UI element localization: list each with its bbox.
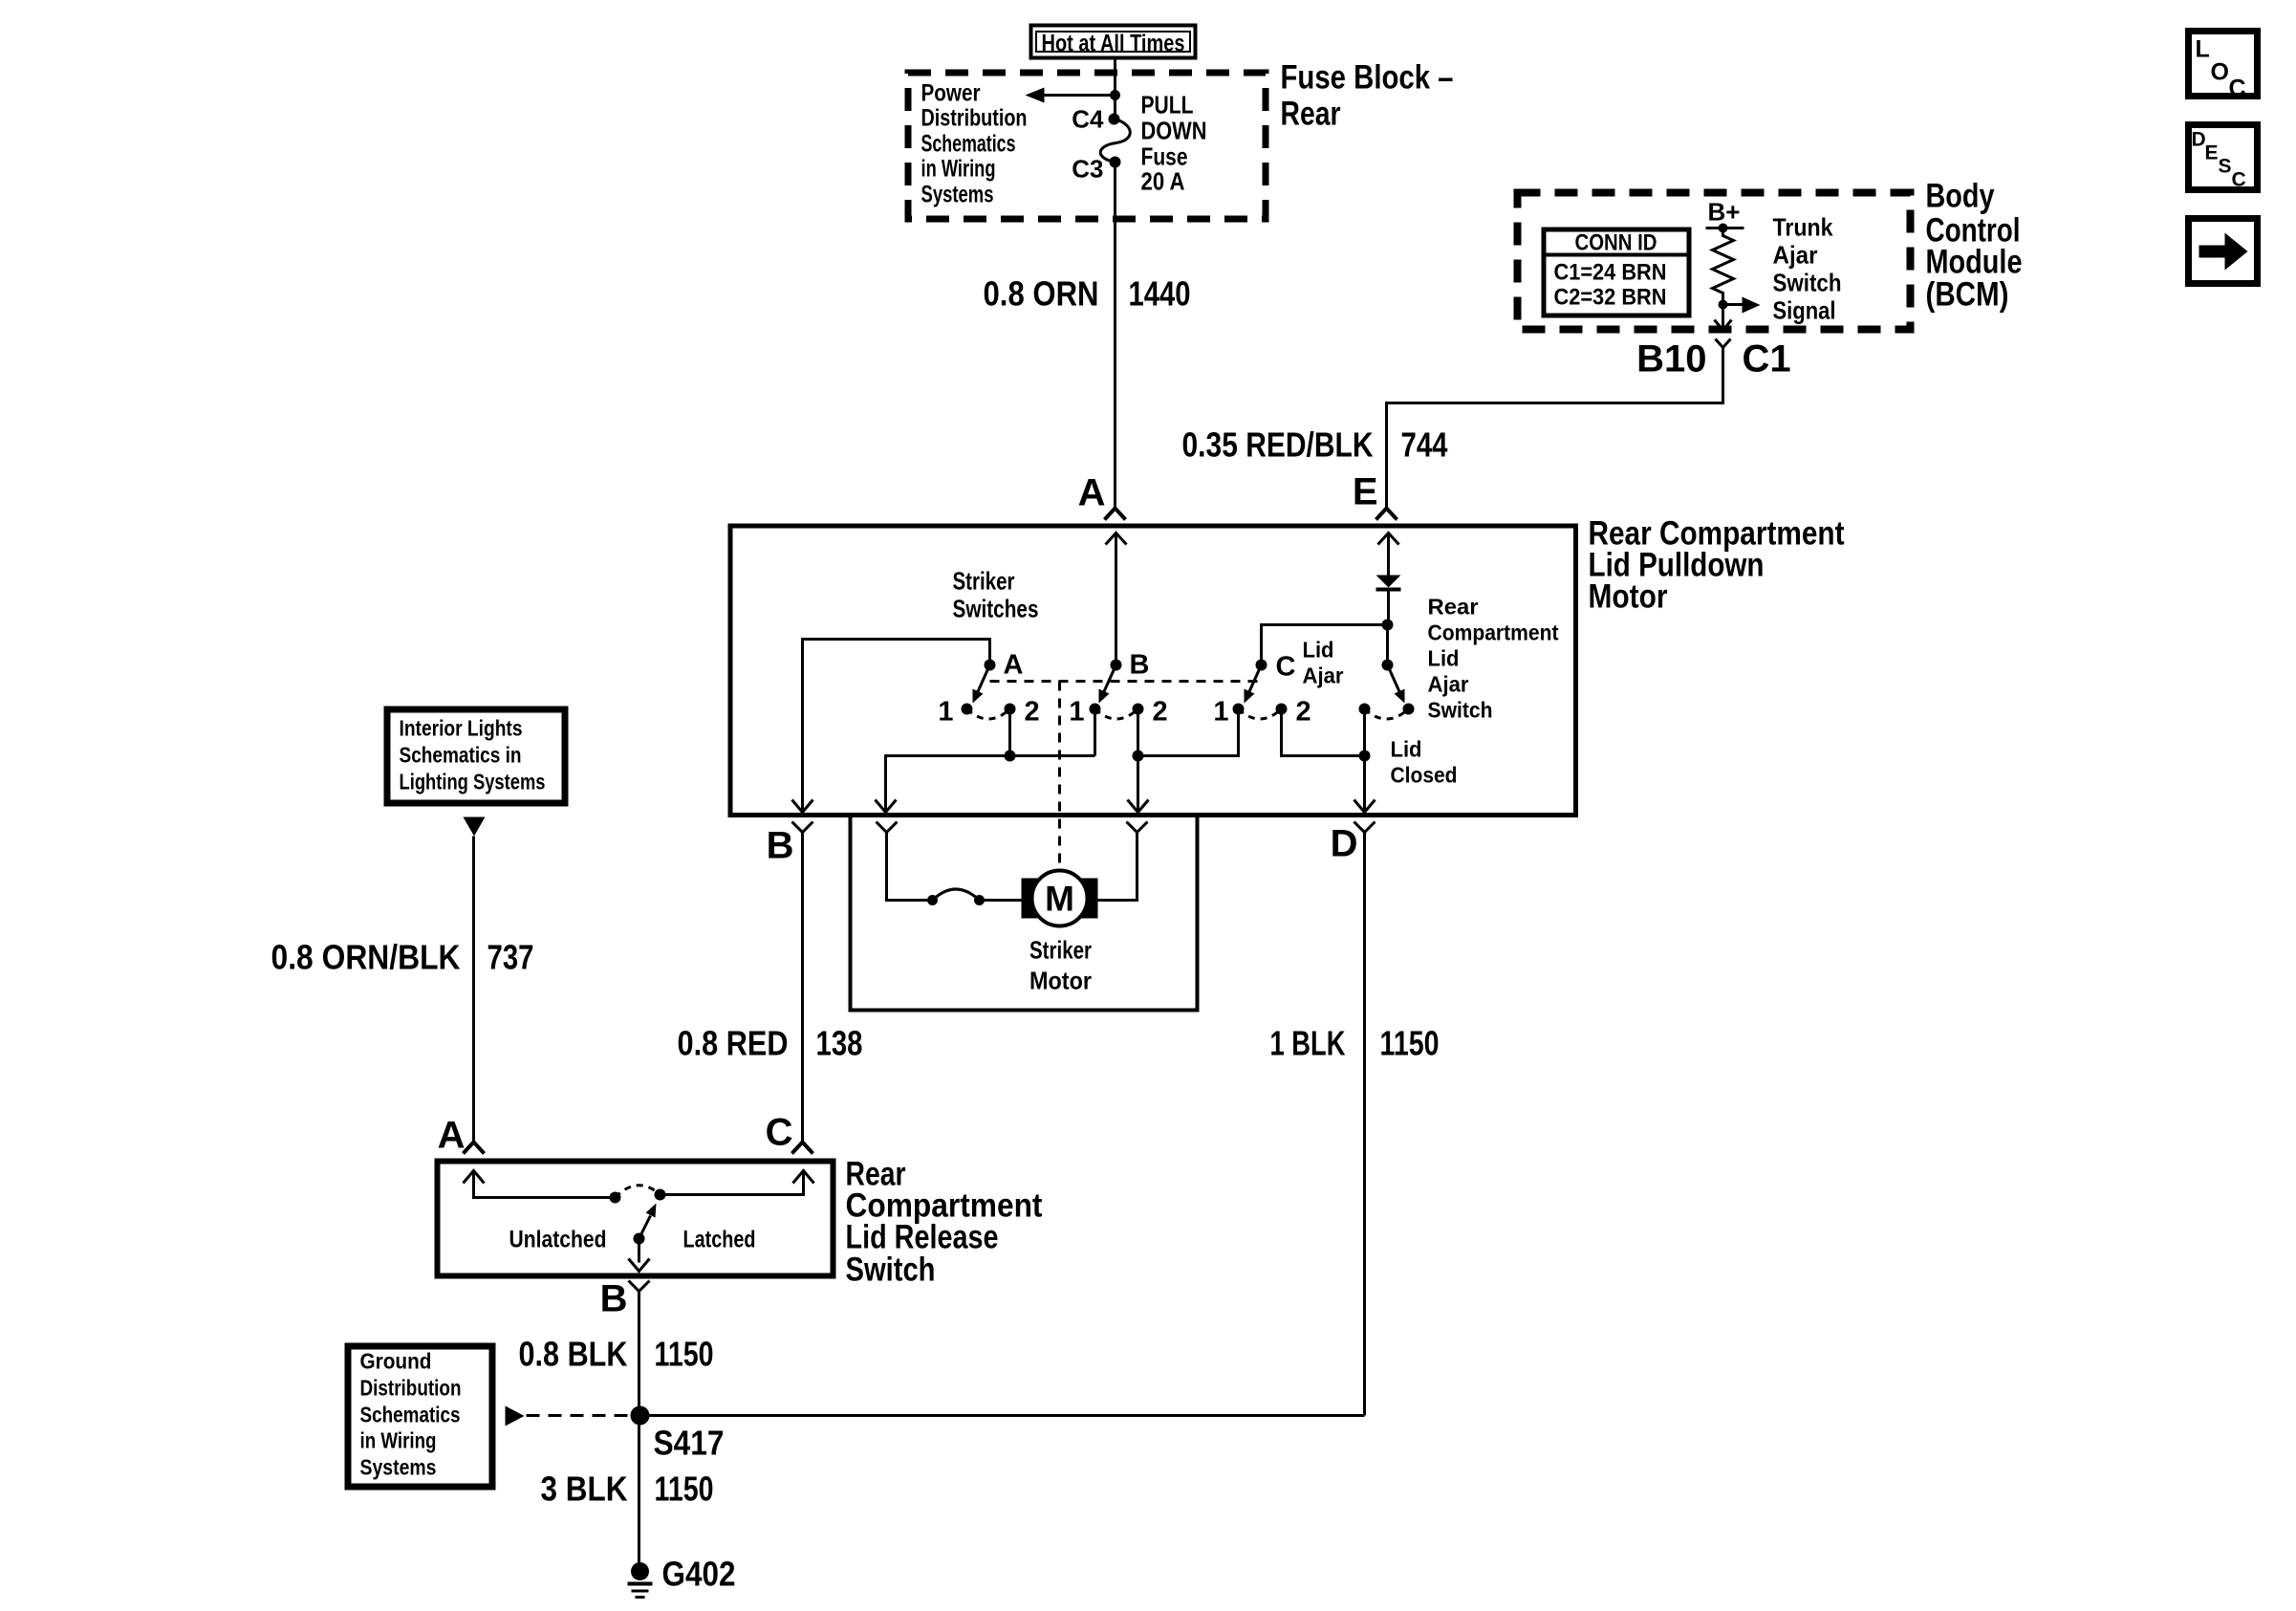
svg-text:2: 2 <box>1296 697 1311 728</box>
release switch internal: common to terminal B <box>629 1239 650 1272</box>
svg-text:C4: C4 <box>1072 105 1104 134</box>
pin C4 <box>1072 105 1119 134</box>
junction: diode output node <box>1382 620 1394 631</box>
svg-text:Distribution: Distribution <box>360 1376 462 1401</box>
wire: rail switch B contact 2 to switch C contact 1, down to motor - <box>1128 709 1239 813</box>
svg-text:Systems: Systems <box>360 1455 437 1480</box>
fuse block dashed box: Fuse Block - Rear <box>908 73 1266 219</box>
svg-text:0.8 BLK: 0.8 BLK <box>519 1335 628 1374</box>
svg-text:B: B <box>600 1278 628 1320</box>
reference: Interior Lights Schematics in Lighting Systems <box>387 709 565 803</box>
svg-text:E: E <box>2205 142 2219 164</box>
svg-text:Ajar: Ajar <box>1773 241 1818 270</box>
striker switch C <box>1213 652 1310 728</box>
svg-text:A: A <box>438 1115 466 1157</box>
svg-text:Switch: Switch <box>1428 698 1493 723</box>
svg-text:Signal: Signal <box>1773 296 1836 325</box>
svg-text:S417: S417 <box>654 1424 725 1463</box>
resistor: trunk ajar pull-up <box>1713 229 1734 305</box>
svg-text:Latched: Latched <box>683 1227 756 1253</box>
reference: Ground Distribution Schematics in Wiring Systems <box>348 1346 492 1487</box>
signal arrow: Trunk Ajar Switch Signal <box>1723 297 1761 314</box>
svg-text:1: 1 <box>1069 697 1084 728</box>
wire: 0.35 RED/BLK 744 from BCM to connector E <box>1182 355 1723 509</box>
svg-text:C3: C3 <box>1072 155 1103 184</box>
wire: 0.8 RED 138 terminal B down to release switch C <box>678 833 863 1143</box>
wire: right feed to motor <box>1098 833 1137 901</box>
connector A of release switch <box>438 1115 485 1157</box>
svg-text:B+: B+ <box>1708 198 1741 227</box>
icon: LOC link box <box>2189 32 2258 102</box>
connector A of pulldown motor <box>1078 472 1126 520</box>
svg-text:L: L <box>2196 36 2210 63</box>
wire: battery feed from Hot at All Times into fuse block <box>1114 58 1116 120</box>
svg-text:Fuse Block –: Fuse Block – <box>1281 59 1454 97</box>
svg-text:M: M <box>1045 880 1074 919</box>
svg-text:O: O <box>2211 59 2229 86</box>
label: Unlatched / Latched <box>509 1227 756 1253</box>
label: Rear Compartment Lid Release Switch <box>846 1156 1043 1289</box>
diode CR1 <box>1376 576 1401 625</box>
svg-text:2: 2 <box>1153 697 1168 728</box>
label: Lid Closed <box>1391 737 1458 788</box>
wire: connector A feed into switch B common (up arrow) <box>1106 533 1127 665</box>
ground G402 <box>628 1555 736 1598</box>
svg-text:C2=32 BRN: C2=32 BRN <box>1554 285 1667 311</box>
svg-text:C: C <box>2232 169 2246 191</box>
svg-text:Lid: Lid <box>1428 646 1460 671</box>
wire: arrow to power distribution schematics <box>1026 88 1116 103</box>
label: Striker Switches <box>953 567 1039 623</box>
svg-text:0.8 ORN/BLK: 0.8 ORN/BLK <box>271 938 461 977</box>
svg-text:1440: 1440 <box>1129 274 1191 314</box>
Body Control Module (BCM) dashed box <box>1518 193 1911 330</box>
svg-text:Schematics: Schematics <box>921 131 1016 158</box>
wire: 0.8 ORN/BLK 737 to release switch A <box>271 837 534 1143</box>
terminal D connector below box <box>1331 822 1375 865</box>
svg-text:Body: Body <box>1926 178 1995 215</box>
label: Trunk Ajar Switch Signal <box>1773 213 1842 325</box>
svg-text:2: 2 <box>1025 697 1040 728</box>
svg-text:Systems: Systems <box>921 182 994 208</box>
svg-text:A: A <box>1004 650 1024 681</box>
svg-text:Power: Power <box>921 80 981 107</box>
junction: fuse feed to power distribution <box>1110 90 1120 100</box>
wire: 3 BLK 1150 to ground G402 <box>541 1416 714 1563</box>
wire: node to lid ajar switch common <box>1386 625 1389 665</box>
svg-text:Ajar: Ajar <box>1303 664 1344 688</box>
svg-text:C1: C1 <box>1743 338 1791 381</box>
motor M: striker motor <box>1022 871 1098 926</box>
wire: splice to terminal D wire <box>640 1414 1365 1417</box>
motor feed connector right <box>1127 822 1148 833</box>
svg-text:1 BLK: 1 BLK <box>1270 1024 1346 1063</box>
release switch internal: terminal A arm <box>464 1171 621 1204</box>
svg-text:Rear: Rear <box>1428 595 1479 620</box>
svg-text:Schematics: Schematics <box>360 1403 461 1427</box>
svg-text:G402: G402 <box>662 1555 736 1594</box>
striker switch B <box>1069 650 1167 728</box>
svg-text:B: B <box>1130 650 1150 681</box>
svg-text:D: D <box>1331 823 1358 865</box>
svg-text:1150: 1150 <box>655 1335 714 1374</box>
CONN ID table <box>1544 229 1690 316</box>
svg-text:1: 1 <box>1213 697 1228 728</box>
svg-text:C: C <box>2229 76 2246 102</box>
release switch internal: dashed throw arc <box>616 1186 661 1198</box>
svg-text:(BCM): (BCM) <box>1926 276 2009 314</box>
svg-text:Motor: Motor <box>1589 578 1668 616</box>
svg-text:C: C <box>1276 652 1296 683</box>
svg-text:C: C <box>766 1112 793 1154</box>
wire: rail switch A contact 2 to switch B contact 1, down to motor + <box>876 709 1095 813</box>
wire: rail switch C contact 2 to lid ajar contact, down to terminal D <box>1282 709 1375 813</box>
wire: 0.8 BLK 1150 to splice S417 <box>519 1292 714 1416</box>
label: Striker Motor <box>1029 936 1092 995</box>
svg-text:CONN ID: CONN ID <box>1575 230 1657 256</box>
svg-text:S: S <box>2219 156 2232 178</box>
svg-text:in Wiring: in Wiring <box>360 1428 437 1453</box>
release switch internal: terminal C arm <box>655 1171 814 1201</box>
svg-text:138: 138 <box>816 1024 863 1063</box>
svg-text:20 A: 20 A <box>1141 167 1185 196</box>
svg-text:744: 744 <box>1401 425 1448 465</box>
junction: resistor to signal tap <box>1719 300 1728 310</box>
label: Body Control Module (BCM) <box>1926 178 2023 314</box>
striker motor sub-box <box>851 816 1198 1011</box>
svg-text:Distribution: Distribution <box>921 105 1028 132</box>
svg-text:Switch: Switch <box>846 1252 936 1289</box>
wire: switch A common to box terminal B (down arrow) <box>792 640 990 813</box>
svg-text:Hot at All Times: Hot at All Times <box>1042 31 1185 57</box>
svg-text:Striker: Striker <box>953 567 1015 596</box>
svg-text:1150: 1150 <box>655 1469 714 1509</box>
svg-text:Compartment: Compartment <box>1428 620 1559 645</box>
svg-text:in Wiring: in Wiring <box>921 156 996 183</box>
svg-text:A: A <box>1078 472 1106 514</box>
svg-text:Schematics in: Schematics in <box>400 743 522 768</box>
release switch internal: movable contact arm <box>634 1204 657 1245</box>
svg-text:Lighting Systems: Lighting Systems <box>400 770 546 795</box>
wire: left feed to thermal breaker <box>887 833 933 901</box>
svg-text:1150: 1150 <box>1380 1024 1440 1063</box>
connector pin B10 C1 of BCM <box>1636 338 1791 381</box>
svg-text:Switch: Switch <box>1773 269 1842 297</box>
node: Hot at All Times <box>1031 26 1196 58</box>
label: Lid Ajar <box>1303 638 1344 688</box>
svg-text:PULL: PULL <box>1141 91 1194 120</box>
svg-text:Striker: Striker <box>1029 936 1092 965</box>
wire: connector E feed with up arrow <box>1378 533 1399 576</box>
connector E of pulldown motor <box>1353 471 1397 520</box>
svg-text:Trunk: Trunk <box>1773 213 1833 242</box>
arrow: to ground distribution reference <box>506 1406 525 1426</box>
svg-text:0.8 RED: 0.8 RED <box>678 1024 789 1063</box>
svg-text:Motor: Motor <box>1029 967 1092 995</box>
svg-text:1: 1 <box>938 697 953 728</box>
svg-text:0.35 RED/BLK: 0.35 RED/BLK <box>1182 425 1374 465</box>
label: Rear Compartment Lid Pulldown Motor <box>1589 515 1845 616</box>
splice S417 <box>631 1406 725 1463</box>
svg-text:C1=24 BRN: C1=24 BRN <box>1554 260 1667 286</box>
svg-text:Interior Lights: Interior Lights <box>400 716 523 741</box>
wire: dashed link to splice S417 <box>527 1414 630 1417</box>
connector C of release switch <box>766 1112 813 1154</box>
svg-text:Unlatched: Unlatched <box>509 1227 607 1253</box>
rear compartment lid ajar switch <box>1359 660 1415 720</box>
striker switch A <box>938 650 1039 728</box>
svg-text:DOWN: DOWN <box>1141 117 1207 145</box>
svg-text:Lid: Lid <box>1391 737 1422 762</box>
svg-text:0.8 ORN: 0.8 ORN <box>984 274 1099 314</box>
wire: node to switch C common <box>1262 625 1388 665</box>
pin C3 <box>1072 155 1120 184</box>
svg-text:B: B <box>767 825 794 867</box>
Rear Compartment Lid Release Switch box <box>438 1162 834 1276</box>
svg-text:Switches: Switches <box>953 595 1039 623</box>
thermal breaker element <box>927 889 1022 905</box>
reference: Power Distribution Schematics in Wiring Systems <box>921 80 1028 208</box>
connector B below release switch <box>600 1278 650 1320</box>
terminal B connector below box <box>767 822 813 867</box>
icon: DESC link box <box>2189 125 2258 191</box>
svg-text:D: D <box>2192 129 2206 151</box>
svg-text:Rear: Rear <box>1281 96 1341 133</box>
node B+ <box>1706 198 1744 233</box>
wire: BCM internal to pin with down arrow <box>1715 305 1732 331</box>
svg-text:B10: B10 <box>1636 338 1706 381</box>
svg-text:Ajar: Ajar <box>1428 672 1469 697</box>
fuse: PULL DOWN Fuse 20 A <box>1100 91 1206 196</box>
wire: 0.8 ORN 1440 fuse output down to connector A <box>984 163 1191 509</box>
svg-text:Closed: Closed <box>1391 763 1458 788</box>
svg-text:3 BLK: 3 BLK <box>541 1469 628 1509</box>
Rear Compartment Lid Pulldown Motor box <box>730 526 1576 816</box>
icon: forward arrow box <box>2189 219 2258 284</box>
mechanical link dashed lines <box>990 682 1265 866</box>
svg-text:737: 737 <box>487 938 534 977</box>
svg-text:Ground: Ground <box>360 1349 432 1374</box>
wire: 1 BLK 1150 terminal D down to splice <box>1270 833 1440 1416</box>
svg-text:E: E <box>1353 471 1378 513</box>
label: Rear Compartment Lid Ajar Switch <box>1428 595 1559 723</box>
svg-text:Lid: Lid <box>1303 638 1334 663</box>
arrow: from interior lights reference <box>464 817 486 837</box>
motor feed connector left <box>877 822 898 833</box>
label: Fuse Block - Rear <box>1281 59 1454 133</box>
